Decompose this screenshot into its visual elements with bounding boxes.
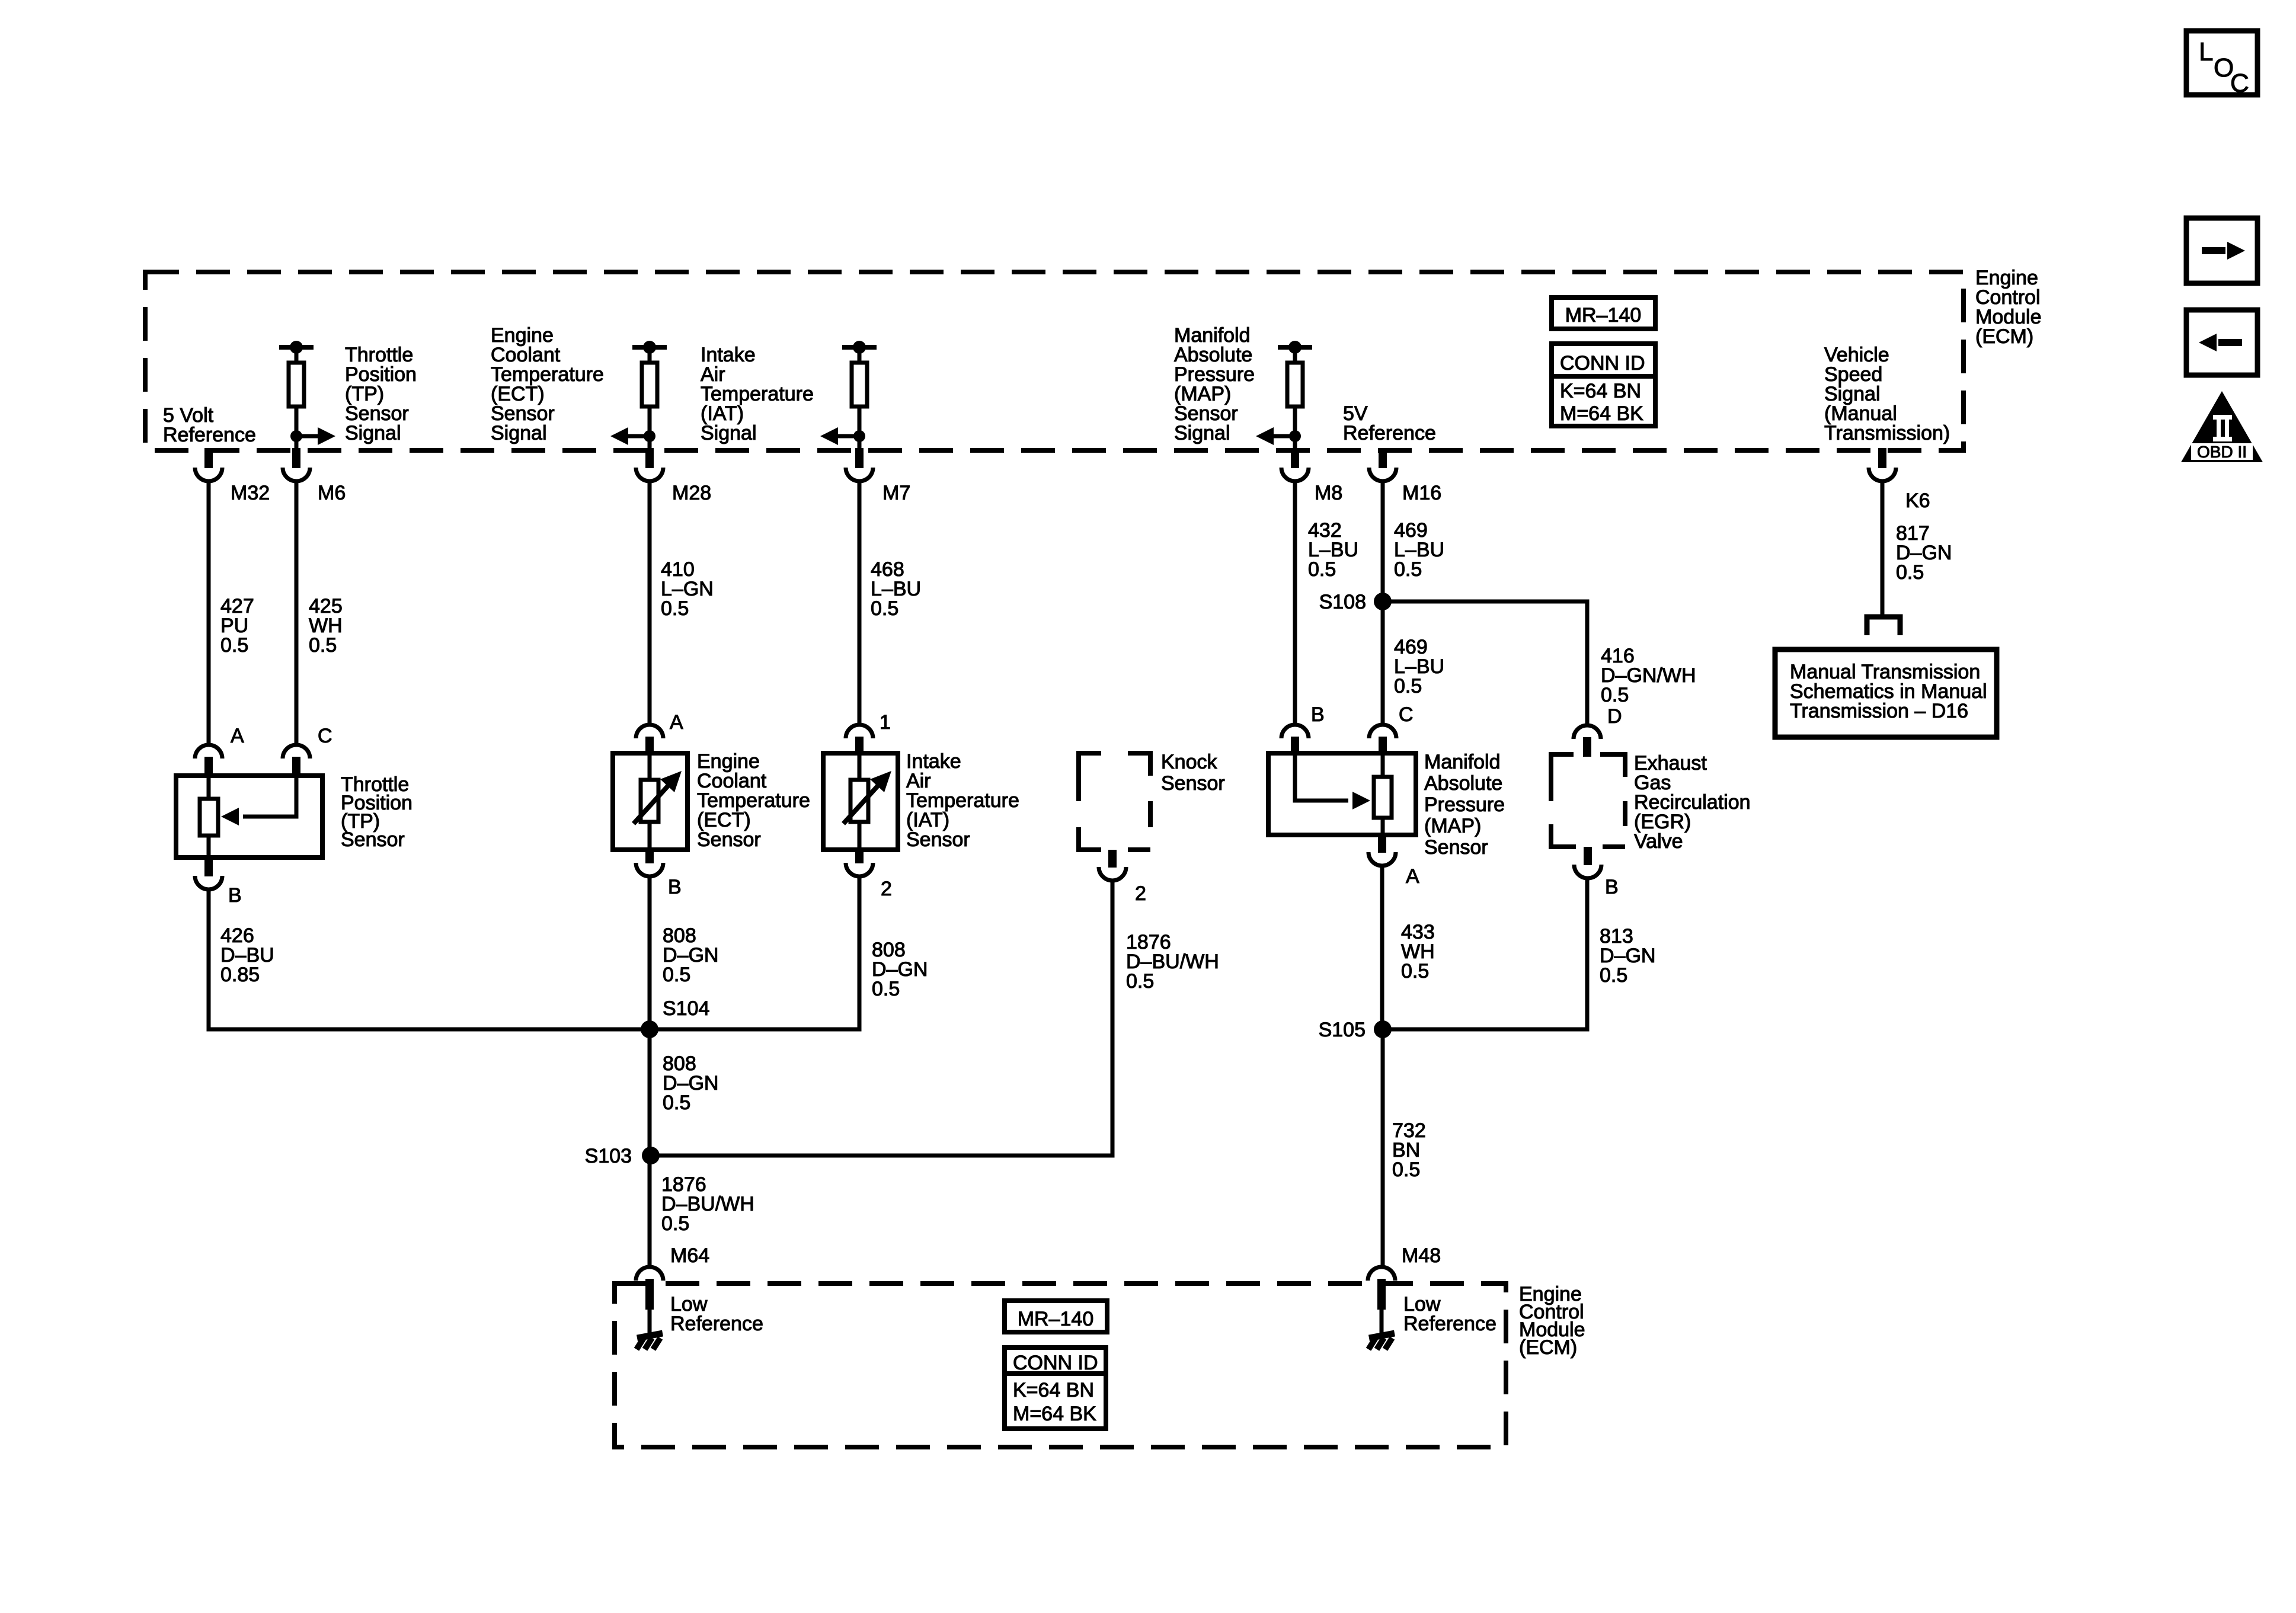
svg-text:MR–140: MR–140 <box>1565 304 1642 327</box>
wire 416 D-GN/WH (S108 to EGR pin D) <box>1383 601 1587 724</box>
svg-text:S108: S108 <box>1319 591 1366 613</box>
svg-text:C: C <box>2230 69 2249 98</box>
svg-text:Transmission – D16: Transmission – D16 <box>1790 700 1968 722</box>
svg-text:MR–140: MR–140 <box>1018 1308 1094 1330</box>
svg-text:A: A <box>1406 865 1419 888</box>
svg-text:B: B <box>668 876 682 898</box>
svg-text:M=64 BK: M=64 BK <box>1013 1403 1096 1425</box>
Intake Air Temperature (IAT) Sensor box <box>823 753 898 850</box>
svg-text:0.5: 0.5 <box>661 597 689 620</box>
svg-text:0.5: 0.5 <box>661 1212 689 1235</box>
svg-text:A: A <box>231 725 244 747</box>
TP potentiometer element <box>207 776 211 799</box>
svg-text:0.5: 0.5 <box>1600 964 1627 987</box>
wire 732 BN (S105 to M48) <box>1381 1029 1385 1265</box>
svg-text:0.5: 0.5 <box>1394 558 1422 581</box>
wire 427 PU (M32 to TP pin A) <box>207 483 211 743</box>
wire 1876 D-BU/WH (knock sensor to splice S103) <box>651 882 1112 1156</box>
resistor (TP signal pull-up) with output arrow <box>279 345 314 350</box>
svg-text:0.5: 0.5 <box>1126 970 1154 993</box>
ECT sensor pin B connector <box>645 850 654 863</box>
svg-text:Absolute: Absolute <box>1424 772 1502 795</box>
svg-text:(MAP): (MAP) <box>1424 815 1481 837</box>
CONN ID tag (top) <box>1552 344 1655 376</box>
OBD II triangle icon <box>2181 391 2263 462</box>
svg-text:Pressure: Pressure <box>1424 793 1505 816</box>
svg-text:B: B <box>1605 876 1619 898</box>
wire 426 D-BU (TP pin B to splice S104) <box>209 891 650 1029</box>
ECT thermistor element <box>648 753 652 780</box>
TP sensor pin A connector <box>195 745 222 759</box>
off-page connector bracket (to manual transmission) <box>1867 617 1900 635</box>
svg-text:0.5: 0.5 <box>1308 558 1336 581</box>
wire 425 WH (M6 to TP pin C) <box>295 483 299 743</box>
IAT sensor pin 2 connector <box>855 850 864 863</box>
svg-text:S103: S103 <box>585 1145 632 1167</box>
svg-text:C: C <box>318 725 332 747</box>
wire 432 L-BU (M8 to MAP pin B) <box>1293 483 1297 723</box>
svg-text:Reference: Reference <box>670 1313 763 1335</box>
wire 433 WH (MAP pin A to splice S105) <box>1380 868 1384 1029</box>
svg-text:0.5: 0.5 <box>1392 1158 1420 1181</box>
svg-text:K6: K6 <box>1905 489 1930 512</box>
svg-text:0.5: 0.5 <box>1601 684 1629 706</box>
wire 468 L-BU (M7 to IAT pin 1) <box>858 483 862 723</box>
svg-text:C: C <box>1399 703 1414 726</box>
TP wiper arm (arrow from pin C) <box>243 776 296 817</box>
EGR valve pin D connector <box>1574 725 1601 739</box>
svg-text:Manifold: Manifold <box>1424 751 1501 773</box>
svg-text:M48: M48 <box>1402 1244 1441 1267</box>
TP sensor pin B connector <box>204 857 213 876</box>
svg-text:Valve: Valve <box>1634 830 1683 853</box>
svg-text:Sensor: Sensor <box>697 828 761 851</box>
connector pin M32 (5 Volt Reference) <box>204 448 213 468</box>
ECM module outline (lower dashed box) <box>615 1284 1506 1447</box>
MR-140 connector tag (lower) <box>1005 1301 1107 1332</box>
wire 808 D-GN (IAT pin 2 to splice S104) <box>650 878 859 1029</box>
splice S108 <box>1374 593 1392 610</box>
Manifold Absolute Pressure (MAP) Sensor box <box>1268 753 1416 835</box>
Exhaust Gas Recirculation (EGR) Valve box (dashed) <box>1551 754 1625 847</box>
wire 469 L-BU (S108 to MAP pin C) <box>1381 601 1385 723</box>
svg-text:B: B <box>228 884 242 907</box>
ECM module outline (top dashed box) <box>145 272 1964 450</box>
svg-text:0.5: 0.5 <box>872 978 900 1000</box>
wire 808 D-GN (ECT pin B to splice S104) <box>648 878 652 1029</box>
svg-text:CONN ID: CONN ID <box>1013 1352 1098 1374</box>
ground / low reference (M48) <box>1380 1310 1384 1333</box>
wire 808 D-GN (S104 to splice S103) <box>648 1029 652 1156</box>
TP sensor pin C connector <box>283 745 310 759</box>
connector pin M8 (MAP signal) <box>1291 448 1299 468</box>
splice S105 <box>1374 1020 1392 1038</box>
resistor (MAP signal pull-up) with input arrow <box>1278 345 1312 350</box>
svg-text:0.5: 0.5 <box>1896 561 1924 584</box>
svg-text:M6: M6 <box>318 482 346 504</box>
connector pin M16 (5V reference) <box>1379 448 1387 468</box>
svg-text:M28: M28 <box>672 482 711 504</box>
svg-text:M=64 BK: M=64 BK <box>1560 402 1643 425</box>
splice S104 <box>641 1020 658 1038</box>
MAP sensor pin C connector <box>1369 725 1396 738</box>
svg-text:M7: M7 <box>882 482 910 504</box>
svg-text:(ECM): (ECM) <box>1975 325 2033 348</box>
svg-text:D: D <box>1607 705 1622 728</box>
svg-text:0.85: 0.85 <box>220 964 260 986</box>
wire 469 L-BU (M16 to splice S108) <box>1381 483 1385 601</box>
svg-text:Signal: Signal <box>1174 422 1230 444</box>
Knock sensor pin 2 connector <box>1108 850 1117 868</box>
svg-text:0.5: 0.5 <box>220 634 248 657</box>
LOC legend icon <box>2186 31 2257 95</box>
svg-text:Transmission): Transmission) <box>1824 422 1950 444</box>
svg-text:0.5: 0.5 <box>1394 675 1422 697</box>
svg-text:Signal: Signal <box>701 422 757 444</box>
svg-text:(ECM): (ECM) <box>1519 1336 1577 1359</box>
svg-text:Sensor: Sensor <box>1424 836 1488 859</box>
connector pin M48 (low reference) <box>1368 1267 1395 1281</box>
svg-text:K=64 BN: K=64 BN <box>1013 1379 1094 1401</box>
wire 410 L-GN (M28 to ECT pin A) <box>648 483 652 723</box>
MAP sensor pin B connector <box>1281 725 1309 738</box>
svg-text:S104: S104 <box>663 997 709 1020</box>
svg-text:Signal: Signal <box>345 422 401 444</box>
svg-text:0.5: 0.5 <box>309 634 337 657</box>
connector pin M28 (ECT signal) <box>645 448 654 468</box>
svg-text:2: 2 <box>881 878 892 900</box>
wire 817 D-GN (K6 to manual transmission schematic) <box>1881 483 1885 617</box>
IAT thermistor element <box>858 753 862 780</box>
svg-text:1: 1 <box>880 711 891 734</box>
Engine Coolant Temperature (ECT) Sensor box <box>613 753 687 850</box>
hyperlink icon (arrow right) <box>2186 218 2257 283</box>
Knock Sensor box (dashed) <box>1079 753 1150 850</box>
MAP sensor pin A connector <box>1378 835 1386 853</box>
IAT sensor pin 1 connector <box>846 725 873 738</box>
Throttle Position (TP) Sensor box <box>176 776 322 857</box>
CONN ID tag (lower) <box>1005 1348 1106 1374</box>
resistor (ECT signal pull-up) with input arrow <box>632 345 667 350</box>
svg-text:S105: S105 <box>1319 1019 1366 1041</box>
svg-text:0.5: 0.5 <box>1401 960 1429 982</box>
connector pin M7 (IAT signal) <box>855 448 864 468</box>
svg-text:CONN ID: CONN ID <box>1560 352 1645 375</box>
MR-140 connector tag (top) <box>1552 297 1655 329</box>
connector pin M64 (low reference) <box>636 1267 663 1281</box>
svg-text:L: L <box>2199 37 2213 66</box>
svg-text:K=64 BN: K=64 BN <box>1560 380 1641 402</box>
svg-text:Reference: Reference <box>1343 422 1436 444</box>
CONN ID key box (lower) <box>1005 1374 1106 1429</box>
connector pin M6 (TP signal) <box>292 448 300 468</box>
svg-text:A: A <box>670 711 683 734</box>
svg-text:B: B <box>1311 703 1325 726</box>
svg-text:M32: M32 <box>231 482 270 504</box>
svg-text:OBD II: OBD II <box>2197 443 2247 461</box>
svg-text:Sensor: Sensor <box>906 828 970 851</box>
wire 813 D-GN (EGR pin B to splice S105) <box>1383 880 1587 1029</box>
svg-text:Knock: Knock <box>1161 751 1217 773</box>
svg-text:M64: M64 <box>670 1244 709 1267</box>
svg-text:0.5: 0.5 <box>871 597 898 620</box>
connector pin K6 (vehicle speed signal) <box>1878 448 1886 468</box>
svg-text:Signal: Signal <box>491 422 547 444</box>
svg-text:Sensor: Sensor <box>341 828 405 851</box>
CONN ID key box (top) <box>1552 376 1655 426</box>
EGR valve pin B connector <box>1584 847 1592 865</box>
svg-text:Reference: Reference <box>163 424 256 446</box>
resistor (IAT signal pull-up) with input arrow <box>842 345 877 350</box>
svg-text:Reference: Reference <box>1403 1313 1496 1335</box>
MAP sensing element (arrow into resistor) <box>1295 753 1348 801</box>
svg-text:M8: M8 <box>1315 482 1342 504</box>
splice S103 <box>642 1147 660 1164</box>
svg-text:0.5: 0.5 <box>663 964 690 986</box>
ECT sensor pin A connector <box>636 725 663 738</box>
svg-text:0.5: 0.5 <box>663 1092 690 1114</box>
reference box: Manual Transmission Schematics <box>1775 649 1997 737</box>
svg-text:Sensor: Sensor <box>1161 772 1225 795</box>
svg-text:2: 2 <box>1135 882 1146 905</box>
svg-text:M16: M16 <box>1402 482 1441 504</box>
wire 1876 D-BU/WH (S103 to M64) <box>648 1156 652 1265</box>
ground / low reference (M64) <box>648 1310 652 1333</box>
hyperlink icon (arrow left) <box>2186 310 2257 375</box>
